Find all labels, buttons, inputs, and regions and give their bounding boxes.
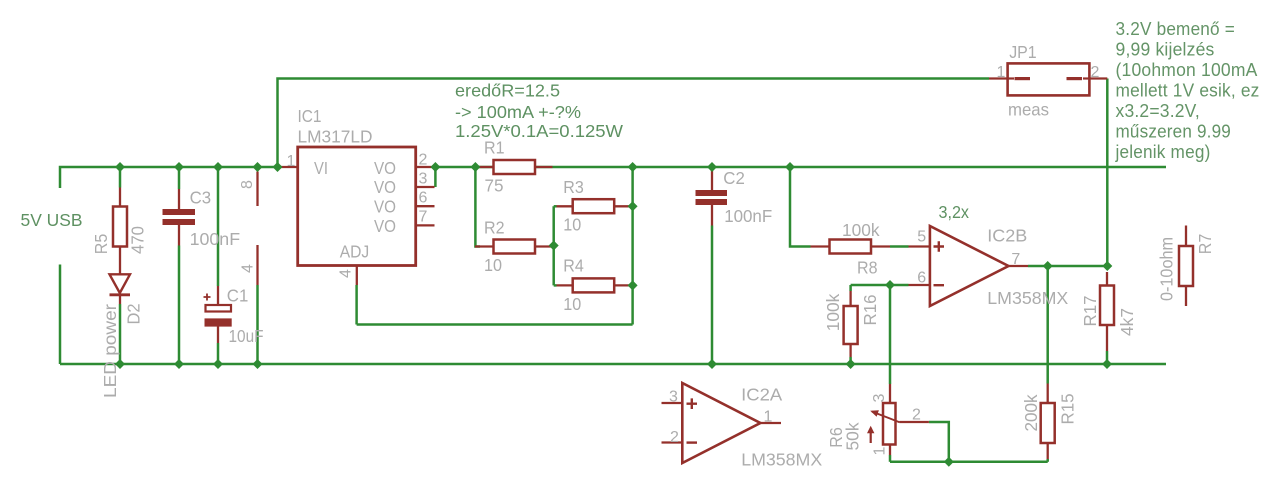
wire C2 lower to rail xyxy=(711,226,714,365)
resistor R7 xyxy=(1157,234,1216,301)
svg-text:meas: meas xyxy=(1008,100,1049,120)
pin lead IC2B pin7 output xyxy=(1009,265,1029,267)
svg-text:VO: VO xyxy=(374,197,396,217)
wire R5 top xyxy=(119,167,122,188)
svg-text:C3: C3 xyxy=(190,188,212,208)
svg-text:R3: R3 xyxy=(563,177,584,197)
junction rail/JP1 riser xyxy=(273,162,283,172)
wire output node down to R15 xyxy=(1046,266,1049,384)
wire C3 bottom to rail xyxy=(178,246,181,365)
svg-text:R8: R8 xyxy=(857,258,878,278)
junction ground/C1 xyxy=(213,359,223,369)
pin lead R8 right xyxy=(871,245,890,247)
junction inverting node xyxy=(885,280,895,290)
op-amp regulator IC1 xyxy=(298,106,416,266)
pin lead C1 bottom xyxy=(217,326,219,343)
pin lead R2 right xyxy=(535,245,553,247)
svg-text:10uF: 10uF xyxy=(229,326,264,346)
pin lead R17 top xyxy=(1106,272,1108,286)
resistor R5 xyxy=(91,207,148,255)
resistor R2 xyxy=(484,218,535,276)
pin lead R17 bottom xyxy=(1106,325,1108,351)
wire pin3 elbow to pin2 junction xyxy=(434,167,437,187)
svg-text:2: 2 xyxy=(419,152,428,169)
junction rail/C1 xyxy=(213,162,223,172)
pin lead R15 bottom xyxy=(1047,443,1049,459)
svg-text:VO: VO xyxy=(374,177,396,197)
wire R15 bottom corner xyxy=(1046,459,1049,462)
svg-text:470: 470 xyxy=(128,226,148,254)
svg-text:műszeren 9.99: műszeren 9.99 xyxy=(1116,122,1232,142)
resistor R3 xyxy=(563,177,614,235)
pin lead R2 left xyxy=(475,245,494,247)
annotation Hungarian note xyxy=(1115,19,1260,162)
wire bottom rail xyxy=(60,363,1166,366)
svg-text:-> 100mA +-?%: -> 100mA +-?% xyxy=(455,102,581,122)
svg-text:6: 6 xyxy=(917,270,926,287)
svg-text:10: 10 xyxy=(484,255,502,275)
pin lead R5 bottom to D2 xyxy=(119,247,121,275)
junction R2 right node xyxy=(549,241,559,251)
wire R4 left stub xyxy=(554,284,557,287)
resistor R15 xyxy=(1021,393,1078,443)
svg-text:100nF: 100nF xyxy=(724,206,772,226)
wire pin6 net horizontal xyxy=(851,284,909,287)
pin lead R3 right xyxy=(614,205,631,207)
resistor R8 xyxy=(830,220,880,278)
svg-text:LM358MX: LM358MX xyxy=(741,450,822,470)
junction output/JP1/R17 xyxy=(1102,261,1112,271)
svg-text:R16: R16 xyxy=(860,294,880,325)
junction ground/D2 xyxy=(115,359,125,369)
svg-text:3: 3 xyxy=(669,389,678,406)
junction feedback bottom xyxy=(944,457,954,467)
svg-text:R1: R1 xyxy=(484,138,505,158)
svg-text:3: 3 xyxy=(419,171,428,188)
wire ADJ pin down xyxy=(355,285,358,325)
capacitor C3 xyxy=(163,188,241,250)
svg-text:2: 2 xyxy=(912,407,921,424)
pin lead IC2B pin5 xyxy=(909,245,931,247)
pin lead D2 bottom xyxy=(119,296,121,305)
wire rail down to R8 xyxy=(790,167,811,247)
svg-text:IC2B: IC2B xyxy=(987,226,1027,246)
svg-text:2: 2 xyxy=(670,429,679,446)
wire pin6 node down to R16 xyxy=(849,285,852,291)
junction R4 right xyxy=(628,280,638,290)
svg-text:7: 7 xyxy=(419,209,428,226)
svg-text:R5: R5 xyxy=(91,234,111,255)
junction pin2/pin3 xyxy=(430,162,440,172)
diode D2 xyxy=(110,274,144,324)
svg-text:(10ohmon 100mA: (10ohmon 100mA xyxy=(1116,60,1258,80)
pin lead R1 right xyxy=(535,166,553,168)
resistor R1 xyxy=(484,138,535,196)
svg-text:VO: VO xyxy=(374,158,396,178)
svg-text:75: 75 xyxy=(485,176,504,196)
resistor R4 xyxy=(563,256,614,315)
junction output/R15 xyxy=(1043,261,1053,271)
pin lead C3 top xyxy=(178,189,180,210)
wire R8 to pin5 xyxy=(890,245,909,248)
svg-text:C2: C2 xyxy=(723,168,745,188)
junction rail/R8 branch xyxy=(785,162,795,172)
svg-text:100nF: 100nF xyxy=(190,229,241,249)
capacitor C2 xyxy=(696,168,773,226)
pin lead C1 top xyxy=(217,286,219,305)
wire ADJ horizontal xyxy=(357,323,633,326)
junction ground/R16 xyxy=(846,359,856,369)
wire C1 top xyxy=(217,167,220,286)
wire right node vertical R1/R3/R4/ADJ xyxy=(631,167,634,325)
junction ground/C3 xyxy=(174,359,184,369)
svg-text:3.2V bemenő =: 3.2V bemenő = xyxy=(1116,19,1236,39)
RED PIN LEADS xyxy=(120,79,1186,460)
junction rail/R5 xyxy=(115,162,125,172)
pin lead IC2A pin1 output xyxy=(760,422,781,424)
svg-text:C1: C1 xyxy=(227,286,249,306)
svg-text:4: 4 xyxy=(338,269,355,278)
pin lead R16 top xyxy=(849,291,851,306)
pin lead IC1 pin1 xyxy=(278,166,298,168)
svg-text:3: 3 xyxy=(871,393,888,402)
pin lead IC1 pin3 xyxy=(416,186,435,188)
svg-text:D2: D2 xyxy=(124,304,144,325)
pin lead IC1 pin4 stub xyxy=(256,245,258,285)
svg-text:LM317LD: LM317LD xyxy=(298,127,373,147)
pin lead R4 left xyxy=(557,284,574,286)
wire output rail right of IC1 xyxy=(432,166,1166,169)
pin lead JP1 pin1 xyxy=(989,77,1014,79)
svg-text:100k: 100k xyxy=(823,294,843,332)
svg-text:VI: VI xyxy=(314,158,328,178)
svg-text:10: 10 xyxy=(563,215,581,235)
svg-text:LED power: LED power xyxy=(100,304,120,398)
wire R16 bottom to rail xyxy=(849,357,852,364)
svg-text:1: 1 xyxy=(287,153,296,170)
wire C3 top xyxy=(178,167,181,189)
pin lead R16 bottom xyxy=(849,344,851,357)
junction rail/C3 xyxy=(174,162,184,172)
pin lead IC2B pin6 xyxy=(909,284,931,286)
svg-text:8: 8 xyxy=(239,180,256,189)
pin lead IC1 pin6 xyxy=(416,205,435,207)
capacitor C1 xyxy=(204,286,264,347)
svg-text:3,2x: 3,2x xyxy=(939,202,970,222)
svg-text:0-10ohm: 0-10ohm xyxy=(1157,237,1177,301)
pin lead C3 bottom xyxy=(178,225,180,246)
wire C1 bottom to rail xyxy=(217,343,220,364)
svg-text:200k: 200k xyxy=(1021,394,1041,431)
op-amp IC2A xyxy=(682,383,822,470)
wire R6 pin1 corner xyxy=(889,455,892,462)
wire feedback bottom horizontal xyxy=(890,461,1048,464)
pin lead R3 left xyxy=(557,205,574,207)
junction ground/pin4 xyxy=(253,359,263,369)
wire pin4 stub to ground rail xyxy=(256,285,259,364)
wire inverting node down to R6 pin3 xyxy=(889,285,892,384)
svg-text:50k: 50k xyxy=(843,422,863,450)
resistor R17 xyxy=(1080,286,1137,337)
junction R3 right xyxy=(628,201,638,211)
wire wiper to corner xyxy=(929,422,949,462)
svg-text:IC2A: IC2A xyxy=(741,385,782,405)
svg-text:x3.2=3.2V,: x3.2=3.2V, xyxy=(1116,101,1201,121)
svg-text:IC1: IC1 xyxy=(298,106,322,126)
svg-text:R15: R15 xyxy=(1058,393,1078,424)
op-amp IC2B xyxy=(930,226,1069,309)
svg-text:eredőR=12.5: eredőR=12.5 xyxy=(455,81,560,101)
svg-text:1: 1 xyxy=(764,409,773,426)
svg-text:7: 7 xyxy=(1011,251,1020,268)
svg-text:1: 1 xyxy=(997,64,1006,81)
pin lead R1 left xyxy=(478,166,494,168)
svg-text:mellett 1V esik, ez: mellett 1V esik, ez xyxy=(1116,81,1260,101)
wire node A down to R2 xyxy=(475,167,480,247)
svg-text:ADJ: ADJ xyxy=(340,242,370,262)
pin lead R6 pin1 xyxy=(889,445,891,456)
svg-text:R17: R17 xyxy=(1080,296,1100,327)
pin lead R6 wiper pin2 xyxy=(900,421,929,423)
pin lead IC1 pin8 stub xyxy=(256,172,258,207)
svg-text:1.25V*0.1A=0.125W: 1.25V*0.1A=0.125W xyxy=(455,121,623,141)
pin lead R7 bottom xyxy=(1185,286,1187,306)
wire 5V USB lower stub to ground rail xyxy=(59,265,62,365)
wire D2 cathode to rail xyxy=(119,304,122,364)
svg-text:2: 2 xyxy=(1091,64,1100,81)
pin lead R5 top xyxy=(119,188,121,207)
svg-text:R7: R7 xyxy=(1195,234,1215,255)
pin lead IC2A pin2 xyxy=(662,441,683,443)
junction right node rail xyxy=(628,162,638,172)
svg-text:R2: R2 xyxy=(484,218,505,238)
svg-text:VO: VO xyxy=(374,216,396,236)
pin lead C2 top xyxy=(711,168,713,191)
wire R17 bottom to rail xyxy=(1106,351,1109,364)
annotation eredoR xyxy=(455,81,623,142)
junction R1 left node xyxy=(470,162,480,172)
svg-text:10: 10 xyxy=(563,294,581,314)
pin lead R6 pin3 xyxy=(889,384,891,403)
jumper JP1 xyxy=(1008,42,1090,120)
svg-text:5: 5 xyxy=(917,229,926,246)
pin lead R8 left xyxy=(811,245,830,247)
svg-text:4: 4 xyxy=(240,264,257,273)
wire riser to JP1 xyxy=(278,79,990,168)
svg-text:100k: 100k xyxy=(842,220,880,240)
pin lead C2 bottom xyxy=(711,205,713,226)
svg-text:1: 1 xyxy=(872,446,889,455)
svg-text:JP1: JP1 xyxy=(1009,42,1037,62)
wire op-amp output xyxy=(1028,265,1107,268)
wire R2 right node vertical to R3/R4 xyxy=(552,206,555,285)
svg-text:6: 6 xyxy=(419,190,428,207)
svg-text:5V USB: 5V USB xyxy=(21,210,83,230)
pin lead R4 right xyxy=(614,284,631,286)
resistor R16 xyxy=(823,294,880,344)
junction rail/C2 xyxy=(707,162,717,172)
junction ground/R17 xyxy=(1102,359,1112,369)
svg-text:4k7: 4k7 xyxy=(1117,308,1137,336)
wire R3 left stub xyxy=(554,205,557,208)
pin lead R15 top xyxy=(1047,384,1049,404)
pin lead IC2A pin3 xyxy=(662,402,683,404)
svg-text:LM358MX: LM358MX xyxy=(987,288,1068,308)
pin lead IC1 ADJ pin4 xyxy=(356,266,358,285)
pin lead IC1 pin7 xyxy=(416,224,435,226)
pin lead IC1 pin2 xyxy=(416,166,432,168)
pin lead JP1 pin2 xyxy=(1083,77,1108,79)
svg-text:jelenik meg): jelenik meg) xyxy=(1115,142,1211,162)
wire 5V USB upper stub xyxy=(60,167,278,188)
pin lead R7 top xyxy=(1185,226,1187,247)
junction ground/C2 xyxy=(707,359,717,369)
potentiometer R6 xyxy=(826,403,900,451)
wire JP1 pin2 down to output node xyxy=(1106,79,1109,267)
junction rail/pin8 xyxy=(253,162,263,172)
svg-text:9,99 kijelzés: 9,99 kijelzés xyxy=(1116,40,1215,60)
svg-text:R4: R4 xyxy=(563,256,584,276)
